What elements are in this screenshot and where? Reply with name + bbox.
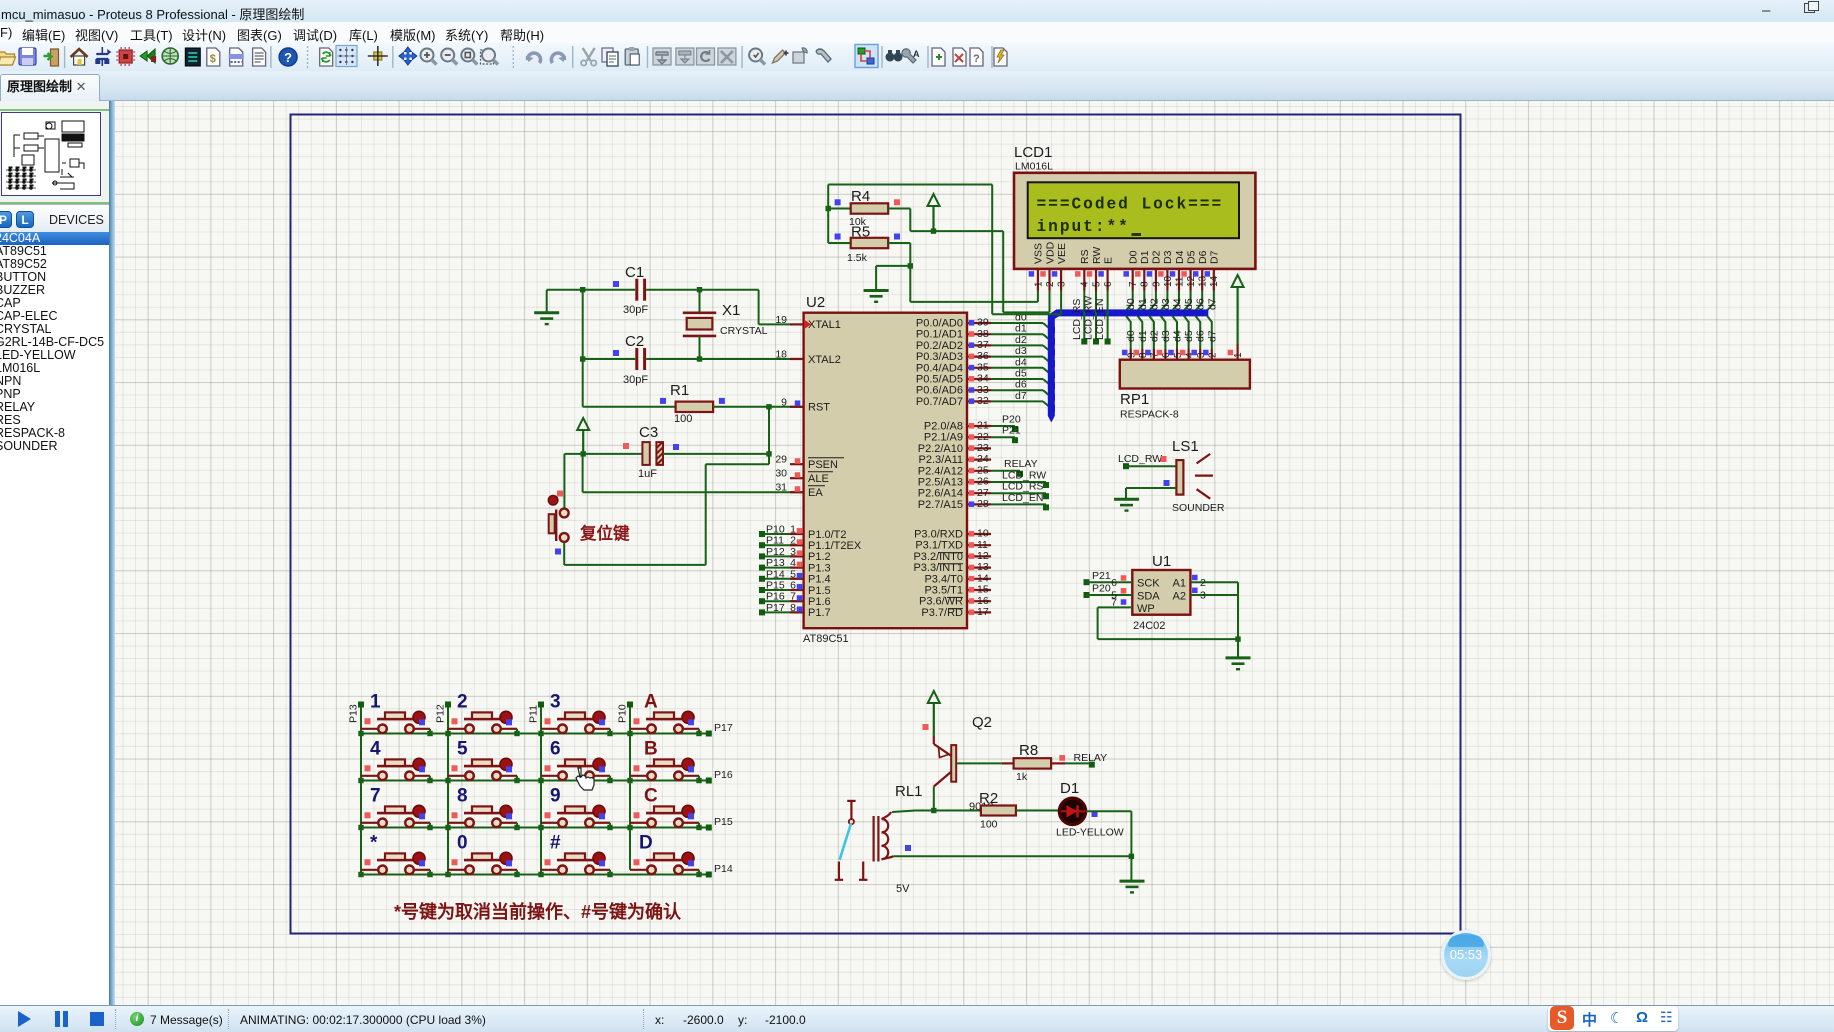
svg-text:3: 3 <box>1057 281 1068 287</box>
svg-text:7: 7 <box>790 591 796 603</box>
svg-text:P0.7/AD7: P0.7/AD7 <box>916 396 963 408</box>
capacitor C1 <box>583 264 700 316</box>
svg-text:RELAY: RELAY <box>1004 458 1038 470</box>
svg-text:30pF: 30pF <box>623 374 648 386</box>
svg-text:SCK: SCK <box>1137 578 1160 590</box>
wire VSS rail <box>909 266 911 302</box>
svg-text:P12: P12 <box>766 546 785 558</box>
node C3 right <box>766 451 771 456</box>
push button key B <box>627 739 701 784</box>
svg-text:P11: P11 <box>528 705 540 723</box>
svg-text:7: 7 <box>1128 281 1139 287</box>
wires LCD D0-D7 to RP1 via bus <box>1120 291 1219 360</box>
svg-text:LCD_RW: LCD_RW <box>1002 470 1046 482</box>
capacitor C3 1uF (electrolytic) <box>623 424 769 480</box>
svg-text:LCD_RS: LCD_RS <box>1002 481 1043 493</box>
svg-text:25: 25 <box>977 464 989 476</box>
svg-text:LCD_EN: LCD_EN <box>1094 299 1106 340</box>
svg-text:8: 8 <box>1140 281 1151 287</box>
svg-text:LCD1: LCD1 <box>1014 144 1052 161</box>
svg-text:D7: D7 <box>1209 250 1221 264</box>
svg-text:input:**: input:** <box>1037 218 1130 236</box>
svg-text:R5: R5 <box>851 224 870 241</box>
capacitor C2 <box>583 333 804 386</box>
svg-text:P0.5/AD5: P0.5/AD5 <box>916 374 963 386</box>
keypad row wire P17 <box>361 733 712 735</box>
svg-text:d0: d0 <box>1125 330 1137 342</box>
svg-text:D1: D1 <box>1139 250 1151 264</box>
svg-text:P0.1/AD1: P0.1/AD1 <box>916 329 963 341</box>
svg-text:7: 7 <box>370 786 381 807</box>
keypad column wire P10 <box>629 705 631 870</box>
svg-text:d7: d7 <box>1015 390 1027 402</box>
svg-text:RW: RW <box>1091 247 1103 264</box>
keypad row wire P14 <box>361 874 712 876</box>
svg-text:D1: D1 <box>1060 780 1079 797</box>
svg-text:3: 3 <box>790 546 796 558</box>
svg-text:32: 32 <box>977 395 989 407</box>
svg-text:CRYSTAL: CRYSTAL <box>720 325 768 337</box>
push button key 2 <box>445 692 519 737</box>
svg-text:1: 1 <box>1233 352 1244 358</box>
svg-text:XTAL2: XTAL2 <box>808 354 841 366</box>
wire net RELAY (R8) <box>1089 762 1095 768</box>
keypad column wire P13 <box>360 705 362 875</box>
wire sounder top <box>1123 463 1129 469</box>
node C1-left rail <box>580 287 585 292</box>
svg-text:4: 4 <box>1080 281 1091 287</box>
svg-text:8: 8 <box>790 602 796 614</box>
svg-text:SDA: SDA <box>1137 590 1160 602</box>
svg-text:d5: d5 <box>1015 368 1027 380</box>
lcd pins VSS..D7 <box>1029 241 1221 290</box>
svg-text:21: 21 <box>977 420 989 432</box>
svg-text:5: 5 <box>790 568 796 580</box>
svg-text:12: 12 <box>1186 275 1197 287</box>
svg-text:Q2: Q2 <box>972 714 992 731</box>
wire to ground (relay) <box>1130 856 1132 880</box>
wire VDD link <box>1003 311 1049 313</box>
svg-text:P3.4/T0: P3.4/T0 <box>924 573 963 585</box>
wire net LCD_RS (P2.6) <box>991 492 1046 494</box>
svg-text:100: 100 <box>674 413 692 425</box>
svg-text:RL1: RL1 <box>895 783 923 800</box>
svg-text:B: B <box>644 739 658 760</box>
wire WP tie <box>1098 606 1133 608</box>
svg-text:P2.0/A8: P2.0/A8 <box>924 421 963 433</box>
push button key 5 <box>445 739 519 784</box>
svg-text:P10: P10 <box>617 704 629 723</box>
push button key 7 <box>358 786 432 831</box>
tab bar <box>0 71 1834 101</box>
svg-text:6: 6 <box>1103 281 1114 287</box>
svg-text:*: * <box>370 833 378 854</box>
push button key 3 <box>538 692 612 737</box>
svg-text:P2.1/A9: P2.1/A9 <box>924 432 963 444</box>
svg-text:d2: d2 <box>1148 298 1160 310</box>
svg-text:10: 10 <box>977 528 989 540</box>
power arrow (RP1 pin1) <box>1232 275 1244 344</box>
svg-text:30: 30 <box>775 468 787 480</box>
wire C3 row left <box>564 453 642 455</box>
svg-text:30pF: 30pF <box>623 304 648 316</box>
ground (U1) <box>1226 658 1251 669</box>
svg-text:XTAL1: XTAL1 <box>808 319 841 331</box>
resistor R5 1.5k <box>828 224 910 266</box>
svg-text:PSEN: PSEN <box>808 459 838 471</box>
svg-text:D0: D0 <box>1128 250 1140 264</box>
svg-text:P2.3/A11: P2.3/A11 <box>919 454 963 466</box>
svg-text:R2: R2 <box>979 790 998 807</box>
recorder clock overlay <box>1441 930 1491 980</box>
svg-text:31: 31 <box>775 482 787 494</box>
svg-text:P1.3: P1.3 <box>808 562 831 574</box>
menu bar <box>0 22 1834 43</box>
svg-text:6: 6 <box>1111 577 1117 589</box>
svg-text:d2: d2 <box>1015 334 1027 346</box>
svg-text:RP1: RP1 <box>1120 391 1149 408</box>
ground (relay rail) <box>1120 881 1145 892</box>
push button key * <box>358 833 432 878</box>
bus (blue) LCD data <box>1048 313 1207 423</box>
wire D1 to ground rail <box>1086 810 1132 812</box>
wire net LCD_EN (P2.7) <box>991 503 1046 505</box>
svg-text:d7: d7 <box>1206 298 1218 310</box>
svg-text:18: 18 <box>775 349 787 361</box>
svg-text:P12: P12 <box>435 704 447 723</box>
node bottom rail <box>1129 854 1134 859</box>
crystal X1 <box>683 290 768 359</box>
keypad row wire P15 <box>361 827 712 829</box>
resistor R8 1k <box>1002 742 1091 783</box>
svg-text:VEE: VEE <box>1056 243 1068 264</box>
svg-text:P14: P14 <box>714 863 733 875</box>
svg-text:AT89C51: AT89C51 <box>803 633 849 645</box>
svg-text:39: 39 <box>977 317 989 329</box>
sheet border frame <box>291 115 1461 934</box>
wire net P21 to SCK <box>1084 579 1090 585</box>
svg-text:RESPACK-8: RESPACK-8 <box>1120 409 1179 421</box>
svg-text:P17: P17 <box>766 602 785 614</box>
svg-text:d2: d2 <box>1148 330 1160 342</box>
svg-text:1k: 1k <box>1016 771 1028 783</box>
svg-text:X1: X1 <box>722 302 740 319</box>
svg-text:37: 37 <box>977 339 989 351</box>
node RST <box>766 404 771 409</box>
wire VEE top rail <box>828 184 992 186</box>
svg-text:D2: D2 <box>1151 250 1163 264</box>
svg-text:P0.6/AD6: P0.6/AD6 <box>916 385 963 397</box>
svg-text:P1.5: P1.5 <box>808 585 831 597</box>
svg-text:R4: R4 <box>851 188 870 205</box>
svg-text:d4: d4 <box>1172 330 1184 342</box>
ground (crystal rail) <box>534 313 559 324</box>
svg-text:P21: P21 <box>1002 425 1021 437</box>
svg-text:d1: d1 <box>1015 323 1027 335</box>
svg-text:D3: D3 <box>1162 250 1174 264</box>
svg-text:3: 3 <box>1200 590 1206 602</box>
node C3 left <box>581 451 586 456</box>
power arrow (reset) <box>577 418 589 454</box>
resistor R1 100 <box>583 382 804 425</box>
svg-text:LED-YELLOW: LED-YELLOW <box>1056 827 1124 839</box>
wire net RELAY (P2.4) <box>991 470 1020 472</box>
window title bar <box>0 0 1834 22</box>
svg-text:d3: d3 <box>1015 345 1027 357</box>
svg-text:4: 4 <box>790 557 796 569</box>
svg-text:14: 14 <box>1209 275 1220 287</box>
push button key # <box>538 833 612 878</box>
svg-text:38: 38 <box>977 328 989 340</box>
svg-text:15: 15 <box>977 584 989 596</box>
svg-text:D5: D5 <box>1185 250 1197 264</box>
svg-text:1.5k: 1.5k <box>847 252 868 264</box>
node power-VDD <box>931 228 936 233</box>
svg-text:P2.6/A14: P2.6/A14 <box>918 488 963 500</box>
resistor R4 10k <box>828 188 910 231</box>
svg-text:5: 5 <box>457 739 468 760</box>
power arrow (Q2) <box>928 691 940 736</box>
push button key 9 <box>538 786 612 831</box>
svg-text:5: 5 <box>1091 281 1102 287</box>
svg-text:C3: C3 <box>639 424 658 441</box>
svg-text:d0: d0 <box>1125 298 1137 310</box>
toolbar <box>0 43 1834 71</box>
svg-text:d4: d4 <box>1172 298 1184 310</box>
sogou input bar <box>1548 1006 1678 1031</box>
svg-text:1: 1 <box>1033 281 1044 287</box>
push button key 1 <box>358 692 432 737</box>
keypad row wire P16 <box>361 780 712 782</box>
svg-text:P15: P15 <box>766 580 785 592</box>
svg-text:29: 29 <box>775 454 787 466</box>
svg-text:d1: d1 <box>1137 298 1149 310</box>
svg-text:P0.3/AD3: P0.3/AD3 <box>916 351 963 363</box>
wire VDD rail <box>910 230 1003 232</box>
svg-text:1: 1 <box>370 692 381 713</box>
svg-text:P11: P11 <box>766 535 784 547</box>
svg-text:ALE: ALE <box>808 473 829 485</box>
svg-text:P20: P20 <box>1092 583 1111 595</box>
svg-text:P1.7: P1.7 <box>808 607 831 619</box>
svg-text:d7: d7 <box>1206 330 1218 342</box>
svg-text:d6: d6 <box>1015 379 1027 391</box>
push button reset (复位键) <box>548 491 568 555</box>
svg-text:17: 17 <box>977 606 989 618</box>
svg-text:P0.4/AD4: P0.4/AD4 <box>916 362 963 374</box>
wire VEE link <box>992 313 1061 315</box>
svg-text:4: 4 <box>370 739 381 760</box>
svg-text:28: 28 <box>977 498 989 510</box>
U2 left pins XTAL1/XTAL2/RST/PSEN/ALE/EA <box>775 314 844 499</box>
lcd cursor <box>1132 233 1142 236</box>
svg-text:d3: d3 <box>1160 330 1172 342</box>
cursor hand <box>576 768 594 790</box>
svg-text:P20: P20 <box>1002 414 1021 426</box>
svg-text:9: 9 <box>1151 281 1162 287</box>
power arrow (VDD) <box>928 194 940 231</box>
wire EA net <box>582 454 584 492</box>
wire left vertical rail <box>582 290 584 407</box>
svg-text:VDD: VDD <box>1044 241 1056 264</box>
status bar <box>0 1005 1834 1032</box>
svg-text:33: 33 <box>977 384 989 396</box>
svg-text:P15: P15 <box>714 816 733 828</box>
U2 port1 pins P1.0-P1.7 with terminals P10-P17 <box>759 524 862 620</box>
svg-text:R1: R1 <box>670 382 689 399</box>
wire net LCD_RW (P2.5) <box>991 481 1046 483</box>
svg-text:P2.2/A10: P2.2/A10 <box>918 443 963 455</box>
wire net P20 <box>991 425 1015 427</box>
svg-text:0: 0 <box>457 833 468 854</box>
svg-text:2: 2 <box>457 692 468 713</box>
push button key 6 <box>538 739 612 784</box>
svg-text:1: 1 <box>790 524 796 536</box>
wire R5 to ground <box>876 265 910 267</box>
svg-text:2: 2 <box>1200 577 1206 589</box>
svg-text:C2: C2 <box>625 333 644 350</box>
svg-text:P0.0/AD0: P0.0/AD0 <box>916 318 963 330</box>
svg-text:E: E <box>1102 257 1114 264</box>
push button key C <box>627 786 701 831</box>
svg-text:A1: A1 <box>1173 578 1186 590</box>
svg-text:5V: 5V <box>896 883 910 895</box>
svg-text:*号键为取消当前操作、#号键为确认: *号键为取消当前操作、#号键为确认 <box>394 901 682 922</box>
U2 right pins P0/P2/P3 <box>913 317 991 619</box>
svg-text:2: 2 <box>790 535 796 547</box>
svg-text:D6: D6 <box>1197 250 1209 264</box>
led D1 LED-YELLOW <box>1056 780 1124 839</box>
relay RL1 coil <box>874 812 911 862</box>
wires d0-d7 from P0 to bus <box>991 312 1055 412</box>
svg-text:d5: d5 <box>1183 330 1195 342</box>
node R4 left <box>826 206 831 211</box>
svg-text:23: 23 <box>977 442 989 454</box>
lcd LCD1 LM016L body <box>1014 173 1255 269</box>
svg-text:2: 2 <box>1045 281 1056 287</box>
svg-text:复位键: 复位键 <box>579 523 630 543</box>
svg-text:LM016L: LM016L <box>1015 161 1053 173</box>
ground (sounder) <box>1114 499 1139 510</box>
svg-text:P2.7/A15: P2.7/A15 <box>918 499 963 511</box>
push button key A <box>627 692 701 737</box>
svg-text:24C02: 24C02 <box>1133 620 1165 632</box>
svg-text:6: 6 <box>790 580 796 592</box>
svg-text:24: 24 <box>977 453 989 465</box>
svg-text:===Coded Lock===: ===Coded Lock=== <box>1037 196 1224 214</box>
svg-text:34: 34 <box>977 373 989 385</box>
svg-text:P3.0/RXD: P3.0/RXD <box>914 529 963 541</box>
node R5 right <box>908 263 913 268</box>
svg-text:9: 9 <box>781 396 787 408</box>
svg-text:P1.0/T2: P1.0/T2 <box>808 529 847 541</box>
svg-text:P21: P21 <box>1092 570 1111 582</box>
wire net P20 to SDA <box>1084 592 1090 598</box>
node C2 junctions <box>580 356 585 361</box>
svg-text:26: 26 <box>977 476 989 488</box>
svg-text:P2.4/A12: P2.4/A12 <box>918 465 963 477</box>
wire A2 <box>1190 594 1238 596</box>
svg-text:C1: C1 <box>625 264 644 281</box>
svg-text:A2: A2 <box>1173 590 1186 602</box>
svg-text:13: 13 <box>977 561 989 573</box>
svg-text:P2.5/A13: P2.5/A13 <box>918 477 963 489</box>
mcu U2 AT89C51 body <box>804 313 967 629</box>
svg-text:RS: RS <box>1079 249 1091 264</box>
svg-text:d6: d6 <box>1195 298 1207 310</box>
svg-text:LCD_RW: LCD_RW <box>1083 296 1095 340</box>
push button key D <box>630 833 702 878</box>
svg-text:13: 13 <box>1198 275 1209 287</box>
svg-text:P13: P13 <box>766 557 785 569</box>
keypad column wire P11 <box>540 705 542 875</box>
svg-text:36: 36 <box>977 350 989 362</box>
svg-text:9: 9 <box>550 786 561 807</box>
svg-text:VSS: VSS <box>1033 243 1045 264</box>
svg-text:10: 10 <box>1163 275 1174 287</box>
wire net P21 <box>991 436 1015 438</box>
svg-text:d5: d5 <box>1183 298 1195 310</box>
svg-text:100: 100 <box>980 819 998 831</box>
push button key 4 <box>358 739 432 784</box>
svg-text:P14: P14 <box>766 568 785 580</box>
svg-text:D4: D4 <box>1174 250 1186 264</box>
svg-text:C: C <box>644 786 658 807</box>
wire Q2 collector <box>933 787 935 811</box>
svg-text:P16: P16 <box>766 591 785 603</box>
wire to reset button <box>563 454 565 509</box>
svg-text:11: 11 <box>1174 276 1185 287</box>
respack RP1 body <box>1120 360 1250 389</box>
svg-text:P1.6: P1.6 <box>808 596 831 608</box>
svg-text:P1.4: P1.4 <box>808 574 831 586</box>
node collector-coil <box>931 808 936 813</box>
wire sounder bottom to ground <box>1126 487 1176 489</box>
svg-text:3: 3 <box>550 692 561 713</box>
svg-text:8: 8 <box>457 786 468 807</box>
svg-text:P10: P10 <box>766 524 785 536</box>
svg-text:1uF: 1uF <box>638 468 657 480</box>
svg-text:P13: P13 <box>348 704 360 723</box>
svg-text:12: 12 <box>977 550 989 562</box>
svg-text:RST: RST <box>808 402 830 414</box>
ground (R5/VSS) <box>864 291 889 302</box>
svg-text:P17: P17 <box>714 722 733 734</box>
svg-text:U2: U2 <box>806 294 825 311</box>
wire R4R5 left vertical <box>827 185 829 244</box>
svg-text:6: 6 <box>550 739 561 760</box>
svg-text:P1.1/T2EX: P1.1/T2EX <box>808 540 862 552</box>
svg-text:R8: R8 <box>1019 742 1038 759</box>
svg-text:P3.1/TXD: P3.1/TXD <box>915 540 963 552</box>
svg-text:14: 14 <box>977 572 989 584</box>
svg-text:7: 7 <box>1111 597 1117 609</box>
svg-text:d6: d6 <box>1195 330 1207 342</box>
keypad column wire P12 <box>447 705 449 875</box>
wire U1 ground rail <box>1237 582 1239 657</box>
push button key 8 <box>445 786 519 831</box>
wire coil to collector <box>892 811 916 813</box>
wire RST to C3 <box>768 407 770 454</box>
svg-text:RELAY: RELAY <box>1074 752 1108 764</box>
eeprom U1 body <box>1132 570 1190 615</box>
wire gnd to C1 rail <box>547 289 583 291</box>
svg-text:SOUNDER: SOUNDER <box>1172 502 1225 514</box>
svg-text:P3.5/T1: P3.5/T1 <box>924 585 963 597</box>
svg-text:35: 35 <box>977 361 989 373</box>
wire C3-right to button loop <box>768 454 770 464</box>
push button key 0 <box>445 833 519 878</box>
